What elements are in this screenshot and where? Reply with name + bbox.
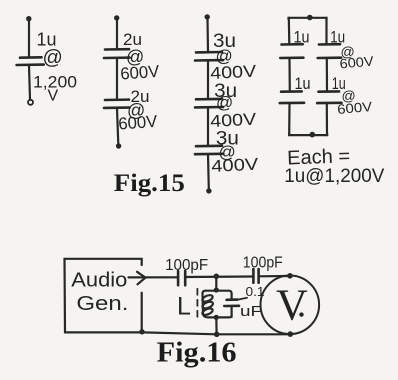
wire C1 top lead [28, 20, 30, 57]
svg-text:L: L [177, 293, 191, 321]
node: box bottom-right junction dot [139, 329, 144, 334]
wire left branch bottom [288, 104, 290, 136]
wire tank to bottom bus [215, 317, 218, 333]
node: C3 bottom terminal dot [116, 143, 121, 148]
wire tank drop from junction [215, 276, 217, 290]
wire C2 top lead [116, 19, 118, 49]
wire between C5 and C6 [207, 108, 209, 146]
wire: Audio Gen box right lower side [141, 293, 143, 332]
capacitor C11 (100 pF series left) [178, 271, 185, 285]
svg-text:100pF: 100pF [165, 257, 208, 274]
capacitor C4 (3u 400V top) [195, 52, 223, 61]
wire right branch upper [325, 18, 327, 44]
arrowhead [137, 272, 146, 285]
capacitor C2 (2u 600V upper) [104, 49, 130, 58]
node: tank top junction dot [214, 274, 220, 280]
box: Audio Gen. source [65, 259, 143, 333]
wire left branch middle [288, 59, 290, 92]
wire: parallel bank top bus [289, 18, 327, 19]
node: bank bottom dot [310, 132, 316, 138]
node: C1 top terminal dot [26, 16, 31, 21]
wire C3 bottom lead [117, 109, 118, 145]
svg-text:Fig.15: Fig.15 [114, 170, 185, 197]
svg-text:1u@1,200V: 1u@1,200V [284, 166, 384, 187]
capacitor C9 (1u left lower) [280, 91, 304, 103]
label C13 leader tick [238, 298, 247, 300]
node: C6 bottom terminal dot [206, 188, 211, 193]
wire C13 bottom stub [231, 306, 233, 317]
wire tank bottom rail [209, 315, 232, 318]
node: C4 string top terminal dot [205, 14, 210, 19]
inductor L1 coil [201, 291, 213, 318]
svg-text:Audio: Audio [71, 269, 127, 291]
wire right branch middle [326, 59, 328, 92]
capacitor C10 (1u @600V right lower) [317, 91, 341, 103]
label voltmeter period [299, 312, 303, 316]
node: C1 bottom open terminal [28, 100, 33, 105]
wire C12 to voltmeter [259, 275, 288, 277]
svg-text:@: @ [216, 93, 233, 112]
node: bank top dot [307, 15, 313, 21]
voltmeter M1 body [261, 276, 320, 335]
node: C2 string top terminal dot [114, 15, 119, 20]
node: bottom bus tank dot [214, 332, 220, 338]
wire C11 to C12 [186, 275, 253, 278]
capacitor C13 (0.1 uF) [224, 300, 239, 306]
capacitor C8 (1u @600V right upper) [318, 44, 342, 58]
svg-text:600V: 600V [120, 62, 161, 84]
wire between C4 and C5 [207, 61, 209, 99]
svg-text:1u: 1u [294, 28, 310, 47]
node: voltmeter bottom dot [288, 331, 294, 337]
svg-text:uF: uF [240, 303, 262, 320]
capacitor C6 (3u 400V bottom) [195, 146, 223, 154]
svg-text:@: @ [43, 47, 63, 69]
svg-text:600V: 600V [337, 99, 373, 117]
svg-text:400V: 400V [210, 62, 258, 83]
svg-text:100pF: 100pF [243, 255, 283, 272]
wire C4 top lead [206, 18, 209, 52]
wire: parallel bank bottom bus [289, 134, 327, 135]
capacitor C3 (2u 600V lower) [104, 100, 130, 108]
svg-text:V: V [276, 280, 308, 329]
capacitor C12 (100 pF series right) [253, 269, 258, 283]
capacitor C7 (1u left upper) [280, 44, 303, 58]
wire: bottom return bus [143, 332, 290, 334]
wire: output arrow shaft [129, 276, 178, 278]
wire between C2 and C3 [116, 59, 118, 100]
wire tank top rail [206, 291, 232, 300]
svg-text:V: V [48, 88, 59, 105]
svg-text:600V: 600V [339, 54, 374, 72]
svg-text:Fig.16: Fig.16 [157, 338, 237, 369]
wire C6 bottom lead [207, 155, 210, 189]
node: tank bottom inner dot [214, 315, 219, 320]
wire right branch bottom [326, 104, 328, 136]
node: voltmeter top dot [287, 273, 293, 279]
svg-text:Gen.: Gen. [76, 293, 128, 315]
wire C1 bottom lead [29, 66, 30, 100]
capacitor C1 [17, 57, 44, 65]
capacitor C5 (3u 400V middle) [195, 99, 223, 108]
node: tank top inner dot [214, 287, 219, 292]
slug-tuning dashed line [196, 289, 198, 320]
svg-text:600V: 600V [118, 112, 159, 134]
svg-text:1u: 1u [295, 74, 311, 93]
svg-text:400V: 400V [211, 155, 260, 176]
wire left branch upper [288, 18, 291, 44]
